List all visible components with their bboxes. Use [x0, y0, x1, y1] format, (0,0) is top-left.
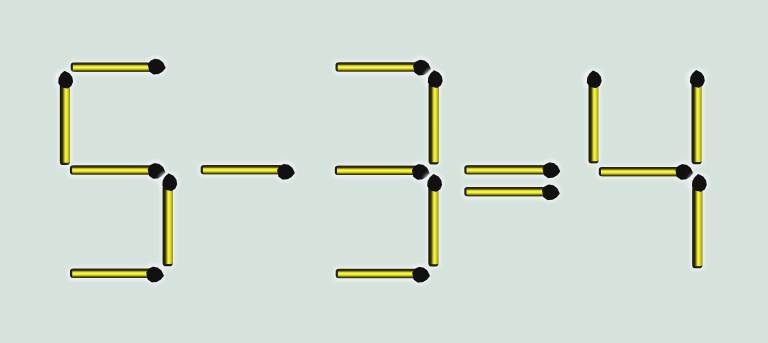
match equals bottom bar — [462, 181, 561, 203]
match 4 top-right segment — [686, 68, 708, 167]
match 5 top-left segment — [54, 69, 76, 168]
match minus sign — [198, 161, 296, 183]
match 3 middle segment — [332, 161, 431, 183]
match 5 top segment — [68, 55, 167, 77]
match 3 top-right segment — [424, 68, 446, 167]
match 5 middle segment — [67, 160, 166, 182]
match 3 bottom-right segment — [423, 172, 445, 269]
match equals top bar — [462, 159, 562, 181]
match 5 bottom-right segment — [158, 171, 180, 268]
match 3 bottom segment — [333, 264, 431, 286]
match 3 top segment — [333, 56, 432, 78]
match 4 top-left segment — [583, 68, 605, 165]
match 4 bottom-right segment — [688, 172, 710, 271]
match 5 bottom segment — [68, 263, 166, 285]
match 4 middle segment — [596, 161, 694, 183]
